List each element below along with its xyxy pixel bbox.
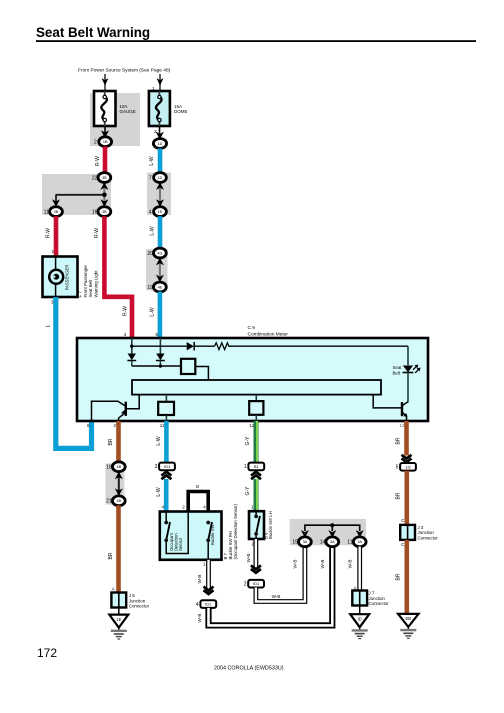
node pin4 branch xyxy=(130,345,133,348)
svg-text:From Power Source System (See: From Power Source System (See Page 48) xyxy=(78,68,171,74)
svg-text:2: 2 xyxy=(182,504,185,509)
svg-text:BR: BR xyxy=(396,573,402,580)
wire BR 21 to J6 xyxy=(116,505,121,592)
occupant detection sensor path xyxy=(165,512,167,522)
svg-text:BR: BR xyxy=(396,437,402,444)
svg-text:ID: ID xyxy=(358,616,362,621)
connector 14 3A xyxy=(326,537,339,547)
transistor Q2 xyxy=(401,402,403,416)
svg-text:3B: 3B xyxy=(54,210,59,214)
svg-text:BR: BR xyxy=(108,552,114,559)
wire cathode bus xyxy=(132,365,181,367)
wire meter pin 5 internal xyxy=(159,338,161,354)
svg-text:A: A xyxy=(112,587,115,592)
svg-text:Junction: Junction xyxy=(129,598,146,603)
gray block: junction 3B xyxy=(42,174,111,215)
svg-text:1B: 1B xyxy=(103,140,108,144)
svg-text:ID1: ID1 xyxy=(205,602,212,607)
svg-text:1D: 1D xyxy=(158,142,163,146)
ground IE xyxy=(109,615,128,628)
wire BR meter pin2 to 4B xyxy=(116,421,121,462)
component B7 Buckle SW RH xyxy=(160,512,222,560)
svg-text:G-Y: G-Y xyxy=(245,436,251,446)
svg-text:11: 11 xyxy=(44,209,49,215)
wire L-W fuse DOME to 1D xyxy=(158,148,163,173)
svg-text:Seat Belt: Seat Belt xyxy=(88,279,93,298)
svg-text:1I2: 1I2 xyxy=(405,464,411,469)
svg-text:W-B: W-B xyxy=(272,594,281,599)
svg-text:B1: B1 xyxy=(254,464,260,469)
svg-text:L-W: L-W xyxy=(149,156,155,165)
connector 16 3B xyxy=(98,207,111,217)
svg-text:Junction: Junction xyxy=(418,530,435,535)
svg-text:R-W: R-W xyxy=(94,228,100,238)
svg-text:2: 2 xyxy=(113,423,116,428)
svg-text:BR: BR xyxy=(108,438,114,445)
connector 22 3B xyxy=(98,173,111,183)
transistor Q1 xyxy=(92,401,126,421)
LED seat belt indicator xyxy=(407,346,409,365)
diode D1 (pin 4) xyxy=(128,354,136,361)
junction connector J3 xyxy=(400,525,415,540)
svg-text:18: 18 xyxy=(106,465,112,471)
fuse 15A DOME xyxy=(149,91,170,126)
wire G-Y meter pin12 to B1 xyxy=(254,421,259,462)
svg-text:11: 11 xyxy=(347,540,352,546)
svg-text:3A: 3A xyxy=(303,540,308,544)
svg-text:15: 15 xyxy=(292,540,298,546)
svg-text:W-B: W-B xyxy=(246,554,251,563)
junction link 22-16 xyxy=(103,182,105,207)
gray block: junction 1D/1E xyxy=(147,173,171,215)
svg-text:L-W: L-W xyxy=(156,436,162,445)
svg-text:Seat Belt Warning: Seat Belt Warning xyxy=(36,25,150,40)
IC block U2 (pin 11) xyxy=(165,395,167,402)
connector 3 IG1 xyxy=(159,463,175,471)
svg-text:Buckle SW LH: Buckle SW LH xyxy=(268,511,273,539)
svg-text:L-W: L-W xyxy=(156,487,162,496)
svg-text:Connector: Connector xyxy=(129,604,150,609)
svg-text:4: 4 xyxy=(196,602,199,608)
connector 4 ID1 xyxy=(200,600,216,608)
wire L-W 4 to 4G xyxy=(158,216,163,248)
svg-text:W-B: W-B xyxy=(347,560,352,569)
feed wire to DOME fuse xyxy=(159,74,161,91)
connector 1 B1 xyxy=(248,463,264,471)
svg-text:Belt: Belt xyxy=(393,371,401,376)
wire fuse DOME to connector 1D xyxy=(159,126,161,138)
svg-text:3A: 3A xyxy=(357,540,362,544)
svg-text:PASSENGER: PASSENGER xyxy=(65,265,70,291)
svg-text:1E: 1E xyxy=(116,617,121,622)
svg-text:BR: BR xyxy=(396,492,402,499)
wire W-B ID1 to junction 15 xyxy=(256,547,305,602)
svg-text:W-B: W-B xyxy=(320,560,325,569)
wire anode rail xyxy=(132,345,187,347)
svg-text:GAUGE: GAUGE xyxy=(120,109,136,114)
component F7 Front Passenger Seat Belt Warning Light xyxy=(43,257,78,298)
shield jumper loop B7 xyxy=(188,492,208,512)
wire W-B junction 11 to J7 xyxy=(357,547,362,591)
connector 15 3A xyxy=(299,537,312,547)
svg-text:2004 COROLLA (EWD533U): 2004 COROLLA (EWD533U) xyxy=(214,666,284,672)
svg-text:F 7: F 7 xyxy=(78,291,83,298)
svg-text:4B: 4B xyxy=(116,465,121,469)
fuse 10A GAUGE xyxy=(94,91,116,126)
svg-text:J 6: J 6 xyxy=(129,593,135,598)
svg-text:14: 14 xyxy=(320,540,326,546)
wire fuse GAUGE to connector 1B xyxy=(104,126,106,136)
svg-text:Seat: Seat xyxy=(393,365,403,370)
svg-text:2: 2 xyxy=(154,129,157,135)
svg-text:5: 5 xyxy=(396,465,399,471)
feed wire to GAUGE fuse xyxy=(104,74,106,91)
svg-text:1: 1 xyxy=(52,249,55,255)
svg-text:Combination Meter: Combination Meter xyxy=(248,331,289,337)
svg-text:W-B: W-B xyxy=(293,560,298,569)
connector 18 4B xyxy=(112,462,125,472)
svg-text:1E: 1E xyxy=(158,210,163,214)
wire R-W 11 to F7 xyxy=(54,216,59,256)
svg-text:2: 2 xyxy=(244,582,247,588)
branch wire to connector 11 xyxy=(56,194,105,196)
svg-text:13: 13 xyxy=(399,423,405,428)
junction link 20-19 xyxy=(159,257,161,283)
svg-text:W-B: W-B xyxy=(197,614,202,623)
wire R-W 16 down, bend to meter pin 4 xyxy=(104,216,132,338)
svg-text:J 7: J 7 xyxy=(369,591,375,596)
svg-text:7: 7 xyxy=(149,175,152,181)
svg-text:1D: 1D xyxy=(158,176,163,180)
svg-text:21: 21 xyxy=(106,499,112,505)
wire L from F7 to meter pin 6 xyxy=(56,297,92,448)
junction connector J6 xyxy=(111,593,126,608)
connector 2 ID1 xyxy=(248,580,264,588)
lamp symbol F7 xyxy=(49,270,63,284)
ground EB xyxy=(398,614,419,627)
svg-text:Buckle SW: Buckle SW xyxy=(210,524,215,545)
junction link 7-4 xyxy=(159,182,161,207)
svg-text:3A: 3A xyxy=(330,540,335,544)
ECU C9 combination meter xyxy=(77,338,428,421)
svg-text:20: 20 xyxy=(147,251,153,257)
resistor R1 xyxy=(215,343,229,350)
wire BR J3 to ground EB xyxy=(404,540,409,614)
svg-text:3B: 3B xyxy=(102,176,107,180)
connector 4 1E xyxy=(154,207,167,217)
svg-text:Connector: Connector xyxy=(369,601,390,606)
gray block: junction 1B behind GAUGE fuse xyxy=(90,93,140,146)
title rule xyxy=(36,40,476,42)
svg-text:R-W: R-W xyxy=(46,228,52,238)
connector 1D xyxy=(153,139,166,149)
svg-text:W-B: W-B xyxy=(197,575,202,584)
svg-text:16: 16 xyxy=(92,209,98,215)
wire W-B ID1 to junction 14 xyxy=(209,547,333,626)
svg-text:L-W: L-W xyxy=(149,226,155,235)
wire L-W meter pin11 to IG1 xyxy=(164,421,169,462)
connector 7 1D xyxy=(154,173,167,183)
svg-text:Front Passenger: Front Passenger xyxy=(83,265,88,298)
svg-text:R-W: R-W xyxy=(122,306,128,316)
component B6 Buckle SW LH xyxy=(249,511,264,539)
svg-text:1: 1 xyxy=(203,562,206,567)
svg-text:C 9: C 9 xyxy=(248,325,256,331)
svg-text:IG1: IG1 xyxy=(164,464,171,469)
connector 5 1I2 xyxy=(400,463,416,471)
svg-text:19: 19 xyxy=(147,285,153,291)
junction 3A internal bus xyxy=(305,525,360,531)
connector 19 4E xyxy=(154,282,167,292)
connector 20 4G xyxy=(154,248,167,258)
svg-text:B: B xyxy=(196,484,199,489)
gray block: junction 4B xyxy=(105,463,124,504)
wire R-W fuse to 3B xyxy=(103,146,108,173)
svg-text:4: 4 xyxy=(203,505,206,510)
svg-text:(Occupant Detection Sensor): (Occupant Detection Sensor) xyxy=(233,504,238,560)
wire U1 to bus bar xyxy=(195,367,208,381)
svg-text:L: L xyxy=(46,324,52,327)
svg-text:3B: 3B xyxy=(102,210,107,214)
svg-text:4E: 4E xyxy=(158,285,163,289)
connector 11 3B xyxy=(50,207,63,217)
junction connector J7 xyxy=(352,591,367,606)
junction link 18-21 xyxy=(118,471,120,497)
svg-text:J 3: J 3 xyxy=(418,525,424,530)
svg-text:172: 172 xyxy=(37,646,57,660)
bus bar rectangle xyxy=(132,380,381,395)
wire BR meter pin13 to 1I2 xyxy=(404,421,409,456)
ground ID xyxy=(350,614,369,627)
svg-text:G-Y: G-Y xyxy=(245,486,251,496)
svg-text:Connector: Connector xyxy=(418,535,439,540)
wire G-Y B1 to B6 xyxy=(254,479,259,511)
svg-text:4B: 4B xyxy=(116,499,121,503)
gray block: junction 4G/4E xyxy=(146,249,168,291)
diode D3 (series) xyxy=(187,342,194,350)
svg-text:DOME: DOME xyxy=(174,109,188,114)
gray block: junction 3A xyxy=(290,519,366,545)
wire W-B B6 to ID1 connector 2 xyxy=(253,539,258,572)
svg-text:L-W: L-W xyxy=(149,307,155,316)
buckle switch B7 xyxy=(207,542,209,560)
IC block U1 xyxy=(181,359,195,374)
svg-text:Junction: Junction xyxy=(369,596,386,601)
svg-text:EB: EB xyxy=(406,616,412,621)
wire BR 1I2 to J3 xyxy=(404,471,409,525)
svg-text:3: 3 xyxy=(155,464,158,470)
svg-text:ID1: ID1 xyxy=(253,581,260,586)
svg-text:4G: 4G xyxy=(157,251,162,255)
svg-text:4: 4 xyxy=(149,209,152,215)
svg-text:2: 2 xyxy=(94,140,97,146)
connector 11 3A xyxy=(353,537,366,547)
svg-text:22: 22 xyxy=(92,175,98,181)
svg-text:Sensor: Sensor xyxy=(178,537,183,551)
svg-text:R-W: R-W xyxy=(95,156,101,166)
wire W-B B7 to ID1 connector 4 xyxy=(206,560,211,593)
wire meter pin 4 internal xyxy=(131,338,133,354)
connector 21 4B xyxy=(112,496,125,506)
IC block U3 (pin 12) xyxy=(255,395,257,402)
svg-text:Warning Light: Warning Light xyxy=(93,270,98,298)
wire L-W IG1 to B7 xyxy=(164,479,169,512)
wire L-W 19 to meter pin 5 xyxy=(158,292,163,338)
svg-text:1: 1 xyxy=(244,464,247,470)
connector 2 1B xyxy=(99,137,112,147)
diode D2 (pin 5) xyxy=(156,354,164,361)
